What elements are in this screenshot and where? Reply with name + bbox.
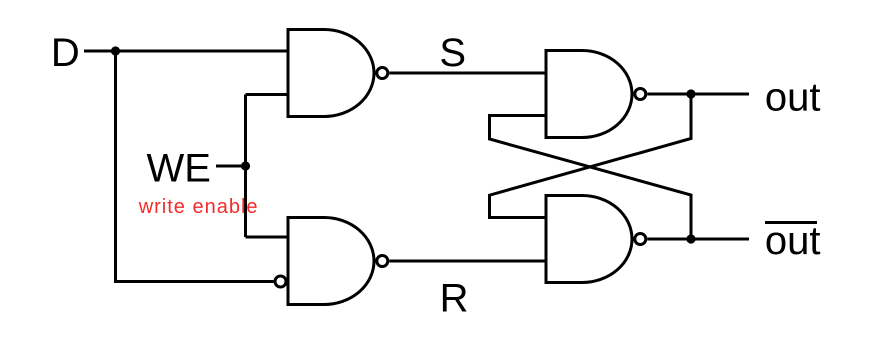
svg-text:WE: WE	[146, 147, 210, 191]
svg-text:out: out	[765, 76, 821, 120]
svg-text:D: D	[51, 31, 80, 75]
svg-text:R: R	[440, 277, 469, 321]
svg-text:out: out	[765, 219, 821, 263]
svg-text:S: S	[439, 31, 466, 75]
svg-text:write enable: write enable	[138, 196, 259, 218]
